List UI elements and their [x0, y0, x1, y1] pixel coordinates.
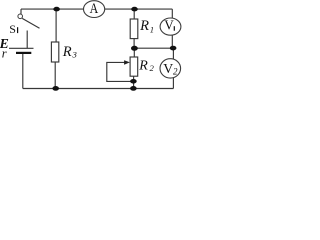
- svg-text:2: 2: [150, 63, 155, 73]
- svg-text:S: S: [9, 22, 16, 36]
- svg-text:R: R: [139, 18, 149, 34]
- svg-text:A: A: [90, 1, 99, 17]
- svg-text:R: R: [138, 58, 148, 73]
- svg-text:3: 3: [72, 50, 78, 60]
- svg-text:r: r: [2, 46, 7, 60]
- svg-text:2: 2: [173, 67, 178, 77]
- svg-text:V: V: [163, 61, 173, 76]
- svg-text:1: 1: [150, 25, 154, 35]
- svg-text:R: R: [62, 44, 72, 60]
- svg-text:V: V: [164, 17, 174, 32]
